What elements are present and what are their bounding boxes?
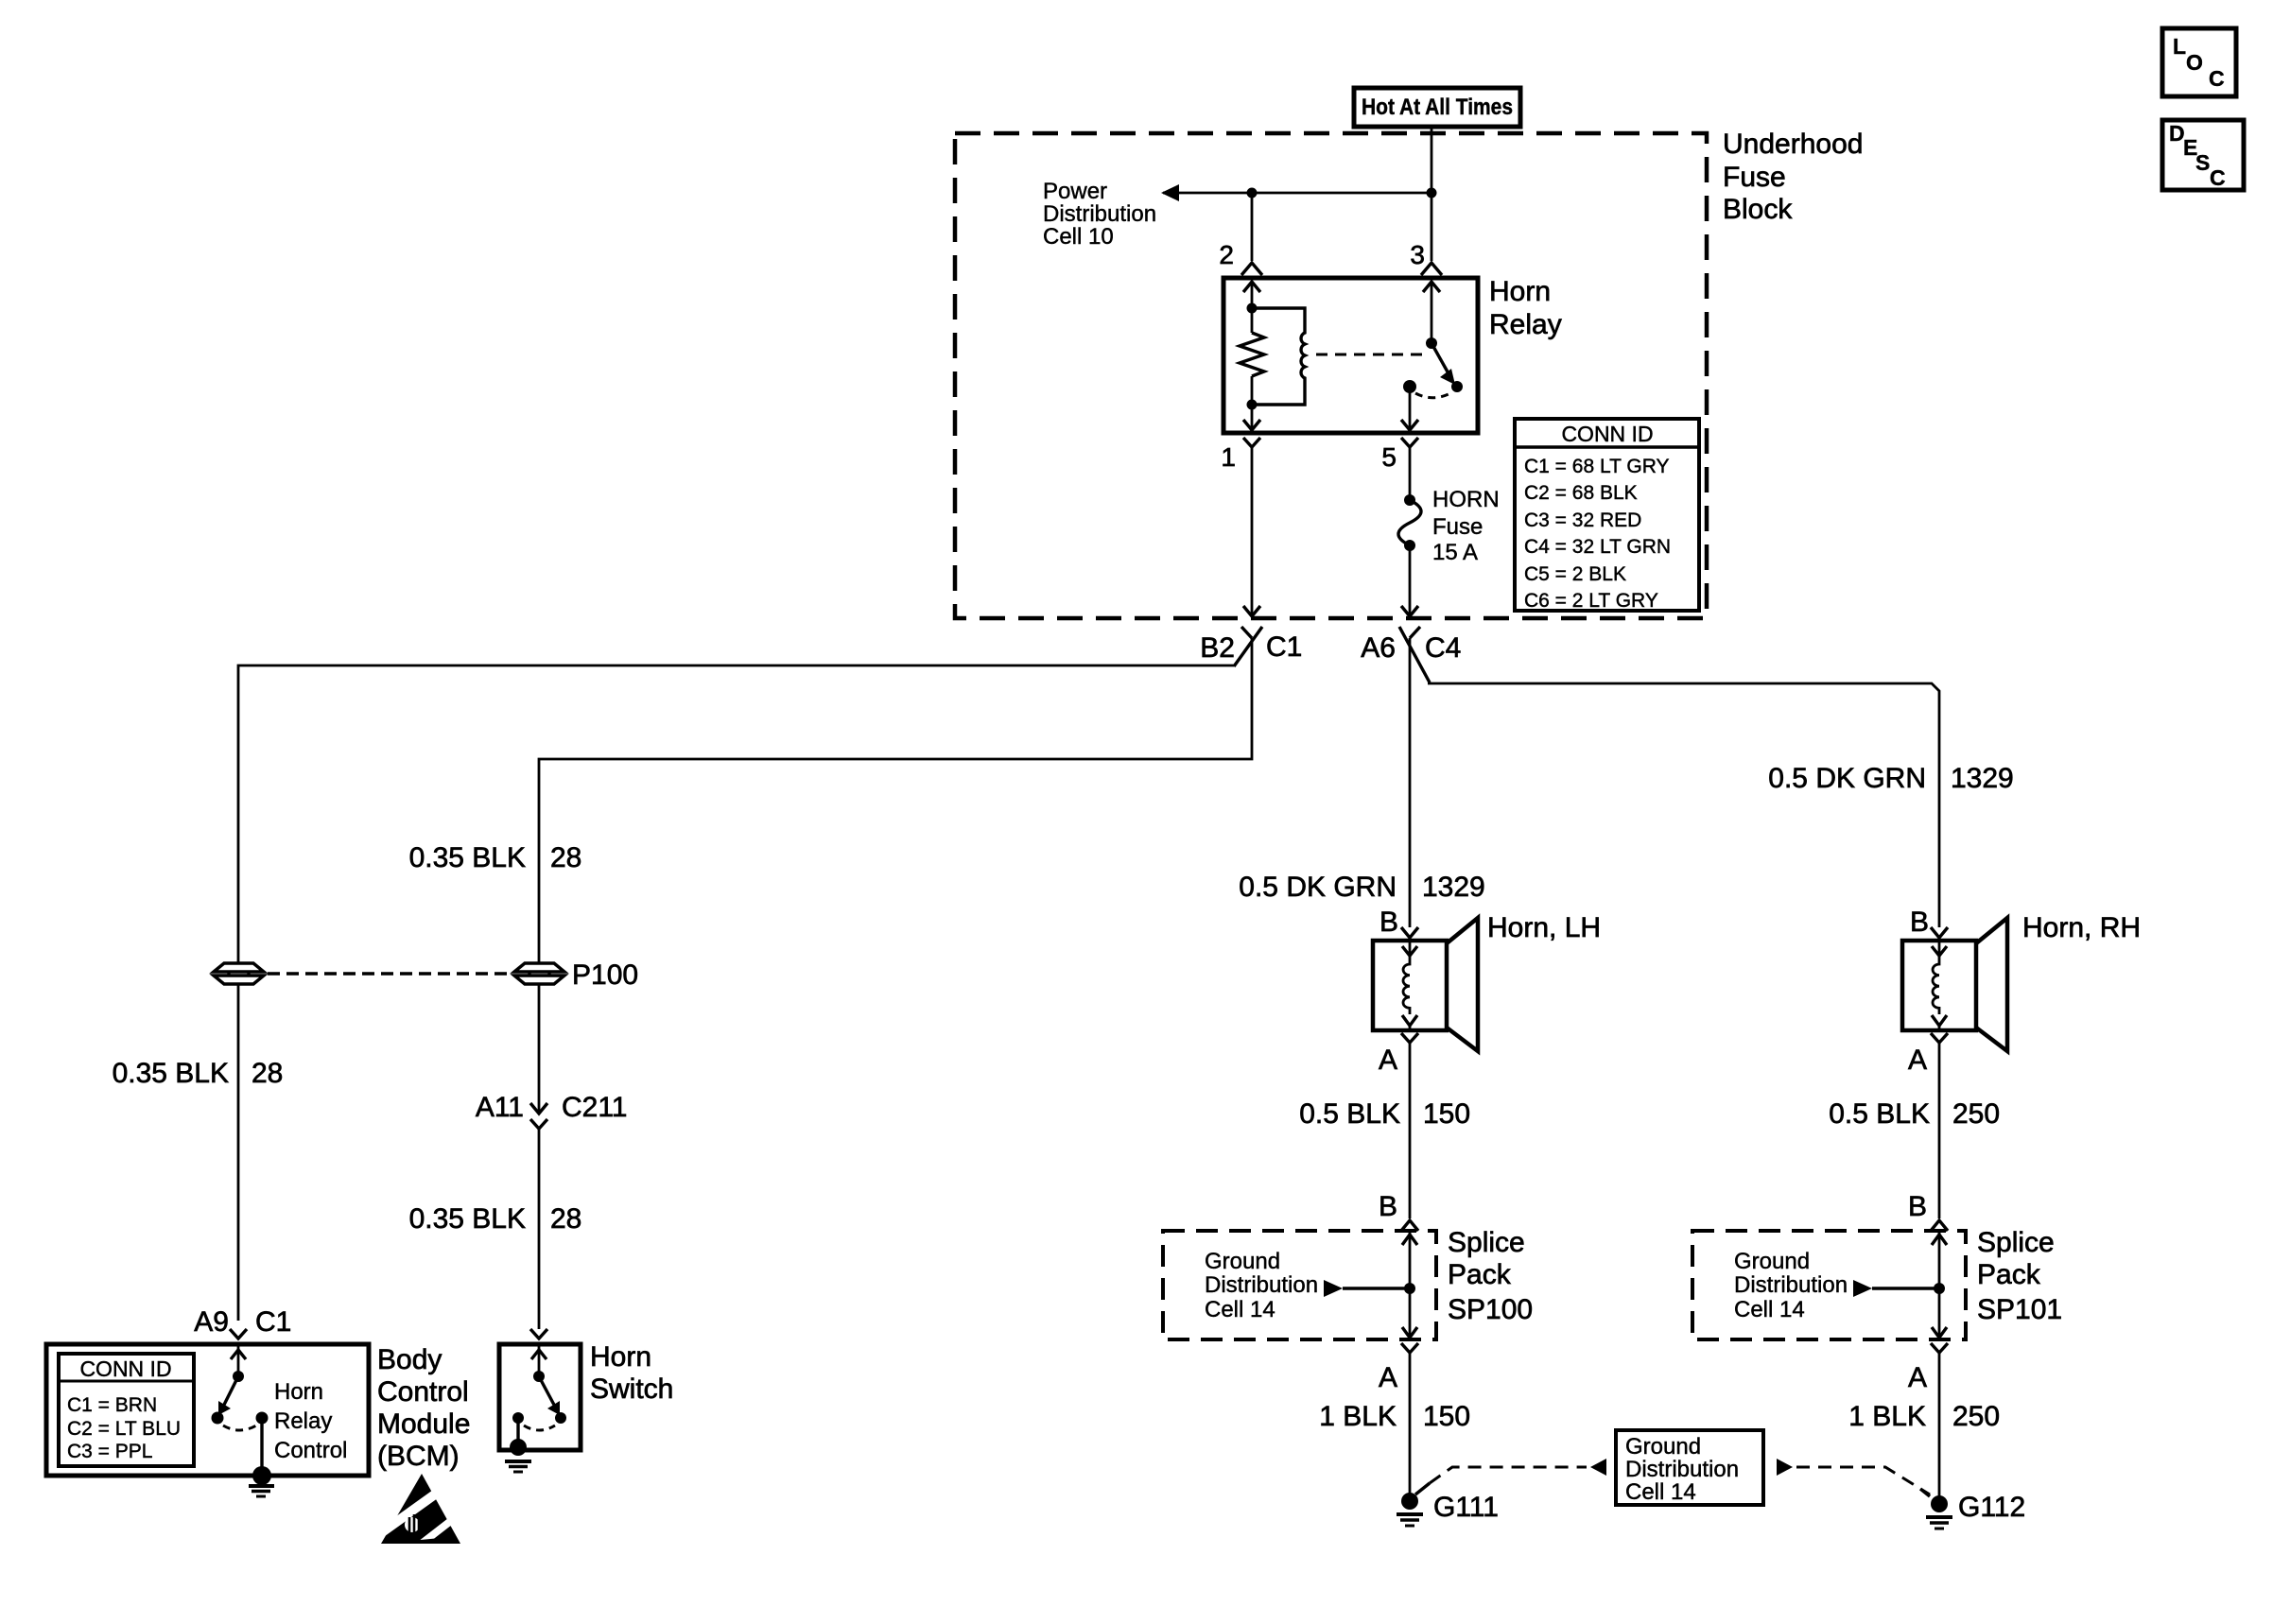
pin 2 label [1219, 240, 1234, 269]
A6 label [1361, 632, 1396, 664]
splice pack SP101 dashed box [1692, 1231, 1966, 1339]
svg-text:S: S [2195, 150, 2210, 175]
wire: drop to relay pin 3 [1431, 193, 1433, 261]
svg-text:(BCM): (BCM) [377, 1441, 460, 1472]
svg-text:Fuse: Fuse [1723, 162, 1786, 193]
svg-text:0.5 BLK: 0.5 BLK [1299, 1098, 1400, 1130]
arrow into B2/C1 connector [1243, 606, 1260, 616]
SP101 splice junction node [1934, 1283, 1945, 1294]
svg-text:CONN ID: CONN ID [79, 1356, 171, 1381]
svg-text:Splice: Splice [1448, 1227, 1525, 1258]
connector Y into Horn Switch [530, 1329, 547, 1339]
Horn, LH label [1487, 912, 1601, 943]
svg-text:5: 5 [1381, 442, 1397, 472]
wire: horn relay control run (C1 to BCM branch) [238, 665, 1234, 963]
svg-text:Ground: Ground [1734, 1249, 1810, 1274]
svg-text:Fuse: Fuse [1432, 514, 1483, 540]
connector Y below Horn LH (pin A) [1401, 1033, 1418, 1043]
connector Y into BCM (A9/C1) [230, 1329, 247, 1339]
svg-text:C: C [2209, 66, 2225, 91]
svg-text:28: 28 [252, 1058, 283, 1089]
relay switch travel dashed arc [1415, 392, 1452, 398]
svg-text:C3 = 32 RED: C3 = 32 RED [1524, 510, 1641, 531]
svg-text:C6 = 2 LT GRY: C6 = 2 LT GRY [1524, 590, 1658, 612]
relay actuation dashed link [1316, 354, 1422, 356]
connector Y below SP101 (pin A) [1931, 1343, 1948, 1353]
pin B label (SP100) [1379, 1191, 1397, 1222]
svg-text:C4 = 32 LT GRN: C4 = 32 LT GRN [1524, 536, 1671, 558]
arrow into Horn RH pin B [1931, 927, 1948, 938]
wire: fuse down to C4 connector [1409, 545, 1412, 606]
SP101 ground distribution stub with arrow [1853, 1280, 1939, 1297]
pin A label (SP100) [1379, 1362, 1397, 1393]
wire: feed from Hot At All Times into fuse block [1431, 127, 1433, 193]
0.35 BLK 28 label (lower, horn switch branch) [409, 1203, 582, 1235]
0.35 BLK 28 label (BCM branch) [113, 1058, 284, 1089]
svg-text:250: 250 [1952, 1098, 2000, 1130]
LOC page marker box [2162, 28, 2236, 96]
Horn Relay Control label [274, 1379, 347, 1463]
horn LH internal coil [1402, 942, 1417, 1029]
svg-text:Module: Module [377, 1408, 470, 1440]
1 BLK 250 label [1848, 1401, 2000, 1432]
svg-text:Block: Block [1723, 194, 1793, 225]
0.35 BLK 28 label (upper, horn switch branch) [409, 842, 582, 873]
svg-text:HORN: HORN [1432, 487, 1500, 512]
svg-text:O: O [2186, 50, 2203, 75]
svg-text:C5 = 2 BLK: C5 = 2 BLK [1524, 563, 1626, 585]
0.5 DK GRN 1329 label (Horn LH branch) [1239, 872, 1484, 903]
arrowhead toward G111 [1590, 1459, 1606, 1476]
svg-text:L: L [2173, 34, 2186, 59]
relay switch common contact node [1403, 380, 1416, 393]
svg-text:1329: 1329 [1951, 763, 2014, 794]
relay switch fixed contact wire with up arrow [1423, 281, 1440, 343]
0.5 DK GRN 1329 label (Horn RH branch) [1768, 763, 2013, 794]
connector chevron into SP100 [1401, 1220, 1418, 1231]
relay coil winding [1252, 308, 1305, 405]
svg-text:1 BLK: 1 BLK [1848, 1401, 1926, 1432]
svg-text:Cell 14: Cell 14 [1625, 1479, 1696, 1505]
horn RH internal coil [1932, 942, 1947, 1029]
svg-text:C1 = BRN: C1 = BRN [67, 1394, 157, 1416]
wire: drop to relay pin 2 [1251, 193, 1254, 261]
svg-text:1 BLK: 1 BLK [1319, 1401, 1397, 1432]
svg-text:150: 150 [1423, 1401, 1470, 1432]
svg-text:2: 2 [1219, 240, 1234, 269]
svg-text:Relay: Relay [274, 1408, 332, 1434]
svg-text:C3 = PPL: C3 = PPL [67, 1441, 152, 1462]
svg-text:1329: 1329 [1422, 872, 1485, 903]
Body Control Module (BCM) label [377, 1344, 470, 1472]
G112 label [1958, 1492, 2025, 1523]
wire: Horn LH to splice pack SP100 [1409, 1043, 1412, 1218]
svg-text:Cell 14: Cell 14 [1205, 1297, 1275, 1322]
svg-text:C4: C4 [1425, 632, 1461, 664]
horn LH body [1373, 918, 1478, 1051]
relay internal node (bottom) [1247, 400, 1258, 410]
Ground Distribution Cell 14 box [1616, 1430, 1763, 1505]
Underhood Fuse Block dashed boundary [955, 133, 1707, 618]
wire: relay common to pin 5 with down arrow [1401, 387, 1418, 430]
svg-text:0.5 BLK: 0.5 BLK [1829, 1098, 1930, 1130]
svg-text:Horn: Horn [1489, 276, 1551, 307]
svg-text:250: 250 [1952, 1401, 2000, 1432]
dashed ground distribution wire (left) [1430, 1467, 1587, 1483]
svg-text:28: 28 [550, 842, 581, 873]
arrow into Horn LH pin B [1401, 927, 1418, 938]
HORN Fuse 15 A label [1432, 487, 1500, 565]
svg-text:0.5 DK GRN: 0.5 DK GRN [1768, 763, 1926, 794]
junction node on power feed (right) [1427, 188, 1437, 199]
svg-text:0.35 BLK: 0.35 BLK [113, 1058, 229, 1089]
wire: C4 branch right to Horn RH [1428, 683, 1939, 927]
HORN fuse element [1398, 494, 1421, 551]
pin A label (Horn LH) [1379, 1045, 1397, 1076]
Splice Pack SP101 label [1977, 1227, 2062, 1325]
svg-text:Ground: Ground [1205, 1249, 1280, 1274]
ESD sensitive device symbol [381, 1474, 460, 1544]
svg-text:Relay: Relay [1489, 309, 1562, 340]
svg-text:Horn: Horn [274, 1379, 323, 1405]
svg-text:0.35 BLK: 0.35 BLK [409, 842, 526, 873]
arrow into A6/C4 connector [1401, 606, 1418, 616]
svg-text:C: C [2210, 165, 2226, 190]
SP100 splice junction node [1404, 1283, 1415, 1294]
pin 5 label [1381, 442, 1397, 472]
SP100 ground distribution stub with arrow [1324, 1280, 1410, 1297]
svg-text:A: A [1908, 1045, 1927, 1076]
svg-text:B: B [1379, 907, 1398, 938]
ground G111 [1397, 1483, 1430, 1526]
wire: C1 down then left to horn switch branch [539, 638, 1252, 963]
Horn Switch label [590, 1341, 673, 1405]
connector B2/C1 (Y with slash) [1234, 627, 1262, 666]
pin 3 label [1410, 240, 1425, 269]
relay internal node (top) [1247, 303, 1258, 314]
svg-text:Pack: Pack [1977, 1259, 2041, 1290]
svg-text:B: B [1908, 1191, 1927, 1222]
Horn Switch outline [499, 1344, 581, 1450]
svg-text:Splice: Splice [1977, 1227, 2055, 1258]
svg-text:C1: C1 [255, 1306, 291, 1338]
splice pack SP100 dashed box [1163, 1231, 1436, 1339]
svg-text:Hot At All Times: Hot At All Times [1362, 95, 1513, 120]
P100 pass-through connector [514, 963, 564, 984]
wire: pin 5 down to fuse [1409, 447, 1412, 500]
relay U: Horn Relay outline [1223, 278, 1478, 433]
svg-text:Control: Control [274, 1438, 347, 1463]
svg-text:Distribution: Distribution [1205, 1272, 1318, 1298]
connector C211 (arrow + chevron) [530, 1103, 547, 1129]
SP101 internal wire with arrows [1932, 1231, 1947, 1339]
dashed ground distribution wire (right) [1796, 1467, 1930, 1494]
svg-text:150: 150 [1423, 1098, 1470, 1130]
horn switch contacts [512, 1346, 566, 1443]
horn switch ground [505, 1439, 531, 1472]
connector Y below SP100 (pin A) [1401, 1343, 1418, 1353]
svg-text:Underhood: Underhood [1723, 129, 1863, 160]
svg-text:Horn, RH: Horn, RH [2022, 912, 2141, 943]
G111 label [1433, 1492, 1499, 1523]
svg-text:Distribution: Distribution [1043, 201, 1156, 227]
Hot At All Times power tag [1354, 88, 1520, 127]
pin 5 connector Y [1401, 438, 1418, 447]
ground G112 [1920, 1489, 1952, 1529]
wire: C211 to horn switch [538, 1129, 541, 1329]
connector A6/C4 (Y with slash) [1399, 627, 1430, 682]
svg-text:SP101: SP101 [1977, 1294, 2062, 1325]
svg-text:Power: Power [1043, 179, 1107, 204]
svg-text:C2 = 68 BLK: C2 = 68 BLK [1524, 482, 1638, 504]
0.5 BLK 250 label [1829, 1098, 2000, 1130]
dashed pairing between pass-through connectors [268, 972, 511, 976]
wire: Horn RH to splice pack SP101 [1938, 1043, 1941, 1218]
B2 label [1200, 632, 1235, 664]
svg-text:C1: C1 [1266, 631, 1302, 663]
svg-text:Body: Body [377, 1344, 442, 1375]
svg-text:0.5 DK GRN: 0.5 DK GRN [1239, 872, 1397, 903]
P100 label [572, 959, 638, 991]
Underhood Fuse Block label [1723, 129, 1863, 225]
svg-text:1: 1 [1221, 442, 1236, 472]
wire: SP101 to ground G112 [1938, 1353, 1941, 1496]
pin A label (SP101) [1908, 1362, 1927, 1393]
svg-text:Horn: Horn [590, 1341, 651, 1373]
relay switch thrown contact node [1451, 381, 1463, 392]
C211 label [562, 1092, 628, 1123]
Horn Relay label [1489, 276, 1562, 340]
svg-text:C1 = 68 LT GRY: C1 = 68 LT GRY [1524, 456, 1670, 477]
svg-text:A11: A11 [476, 1092, 524, 1123]
pin 1 connector Y [1243, 438, 1260, 447]
svg-text:A: A [1908, 1362, 1927, 1393]
Ground Distribution Cell 14 label (SP101) [1734, 1249, 1848, 1322]
svg-text:SP100: SP100 [1448, 1294, 1533, 1325]
CONN ID table (fuse block) [1515, 419, 1699, 612]
wire: BCM branch below connector [237, 984, 240, 1321]
wire: C4 down to Horn LH [1409, 638, 1412, 927]
horn RH body [1902, 918, 2007, 1051]
svg-text:Cell 14: Cell 14 [1734, 1297, 1805, 1322]
pin B label (SP101) [1908, 1191, 1927, 1222]
svg-text:G112: G112 [1958, 1492, 2025, 1523]
svg-text:Switch: Switch [590, 1373, 673, 1405]
C1 label (BCM pin) [255, 1306, 291, 1338]
svg-text:28: 28 [550, 1203, 581, 1235]
C4 label [1425, 632, 1461, 664]
wire: SP100 to ground G111 [1409, 1353, 1412, 1494]
connector chevron into SP101 [1931, 1220, 1948, 1231]
wire: pin 1 down to C1 connector [1251, 447, 1254, 606]
svg-text:Ground: Ground [1625, 1434, 1701, 1460]
BCM horn relay control switch [212, 1346, 269, 1471]
svg-text:A6: A6 [1361, 632, 1396, 664]
wire: power distribution feed horizontal [1163, 192, 1431, 195]
C1 label [1266, 631, 1302, 663]
svg-text:Pack: Pack [1448, 1259, 1512, 1290]
relay switch arm with arrowhead [1431, 343, 1455, 385]
svg-text:Cell 10: Cell 10 [1043, 224, 1114, 250]
Ground Distribution Cell 14 label (SP100) [1205, 1249, 1318, 1322]
svg-text:C2 = LT BLU: C2 = LT BLU [67, 1418, 181, 1440]
resistor (relay coil suppression) [1240, 333, 1264, 376]
wire: coil to pin 1 with down arrow [1243, 376, 1260, 430]
svg-text:CONN ID: CONN ID [1561, 422, 1653, 446]
pin B label (Horn LH) [1379, 907, 1398, 938]
svg-text:Control: Control [377, 1376, 469, 1408]
svg-text:C211: C211 [562, 1092, 628, 1123]
junction node on power feed (left) [1247, 188, 1258, 199]
BCM: Body Control Module outline [46, 1344, 369, 1476]
svg-text:A: A [1379, 1045, 1397, 1076]
DESC page marker box [2162, 120, 2244, 190]
svg-text:A9: A9 [194, 1306, 229, 1338]
Splice Pack SP100 label [1448, 1227, 1533, 1325]
BCM internal ground [249, 1466, 274, 1496]
svg-text:P100: P100 [572, 959, 638, 991]
pin A label (Horn RH) [1908, 1045, 1927, 1076]
A11 label [476, 1092, 524, 1123]
inline pass-through connector (BCM branch) [214, 963, 264, 984]
Power Distribution Cell 10 label [1043, 179, 1156, 250]
svg-text:Distribution: Distribution [1625, 1457, 1739, 1482]
pin 2 connector chevron [1241, 263, 1262, 275]
1 BLK 150 label [1319, 1401, 1470, 1432]
svg-text:G111: G111 [1433, 1492, 1499, 1523]
arrowhead toward G112 [1777, 1459, 1793, 1476]
A9 label [194, 1306, 229, 1338]
svg-text:15 A: 15 A [1432, 540, 1478, 565]
svg-text:0.35 BLK: 0.35 BLK [409, 1203, 526, 1235]
SP100 internal wire with arrows [1402, 1231, 1417, 1339]
Horn, RH label [2022, 912, 2141, 943]
svg-text:B2: B2 [1200, 632, 1235, 664]
0.5 BLK 150 label [1299, 1098, 1470, 1130]
pin B label (Horn RH) [1910, 907, 1929, 938]
svg-text:Distribution: Distribution [1734, 1272, 1848, 1298]
svg-text:A: A [1379, 1362, 1397, 1393]
CONN ID table (BCM) [59, 1354, 194, 1466]
pin 3 connector chevron [1421, 263, 1442, 275]
pin 1 label [1221, 442, 1236, 472]
arrow to Power Distribution Cell 10 [1161, 184, 1179, 201]
connector Y below Horn RH (pin A) [1931, 1033, 1948, 1043]
relay switch pivot node [1426, 337, 1437, 349]
svg-text:3: 3 [1410, 240, 1425, 269]
relay coil branch left wire with up arrow [1243, 281, 1260, 333]
svg-text:B: B [1910, 907, 1929, 938]
wire: horn switch branch below P100 [538, 984, 541, 1114]
svg-text:Horn, LH: Horn, LH [1487, 912, 1601, 943]
svg-text:B: B [1379, 1191, 1397, 1222]
